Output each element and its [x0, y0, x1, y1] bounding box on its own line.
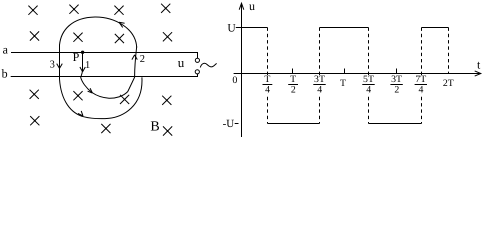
svg-text:7T: 7T: [415, 74, 426, 85]
svg-text:2T: 2T: [443, 78, 454, 89]
svg-text:4: 4: [265, 85, 270, 96]
svg-text:U: U: [227, 22, 236, 34]
svg-text:4: 4: [366, 85, 371, 96]
svg-text:2: 2: [394, 85, 399, 96]
svg-text:T: T: [290, 74, 296, 85]
svg-text:1: 1: [85, 60, 90, 71]
svg-text:P: P: [73, 50, 80, 64]
svg-text:B: B: [150, 119, 159, 134]
svg-text:3T: 3T: [391, 74, 402, 85]
svg-text:T: T: [264, 74, 270, 85]
svg-text:2: 2: [140, 54, 145, 65]
svg-text:T: T: [340, 78, 346, 89]
svg-text:3T: 3T: [314, 74, 325, 85]
svg-text:3: 3: [50, 60, 55, 71]
svg-text:4: 4: [419, 85, 424, 96]
svg-text:0: 0: [232, 75, 237, 86]
svg-text:-U: -U: [223, 118, 235, 130]
svg-text:4: 4: [317, 85, 322, 96]
svg-text:2: 2: [291, 85, 296, 96]
svg-text:5T: 5T: [363, 74, 374, 85]
svg-text:u: u: [178, 55, 185, 70]
svg-text:u: u: [249, 0, 255, 13]
svg-text:b: b: [2, 67, 8, 81]
svg-text:t: t: [477, 57, 481, 71]
svg-text:a: a: [3, 42, 9, 56]
